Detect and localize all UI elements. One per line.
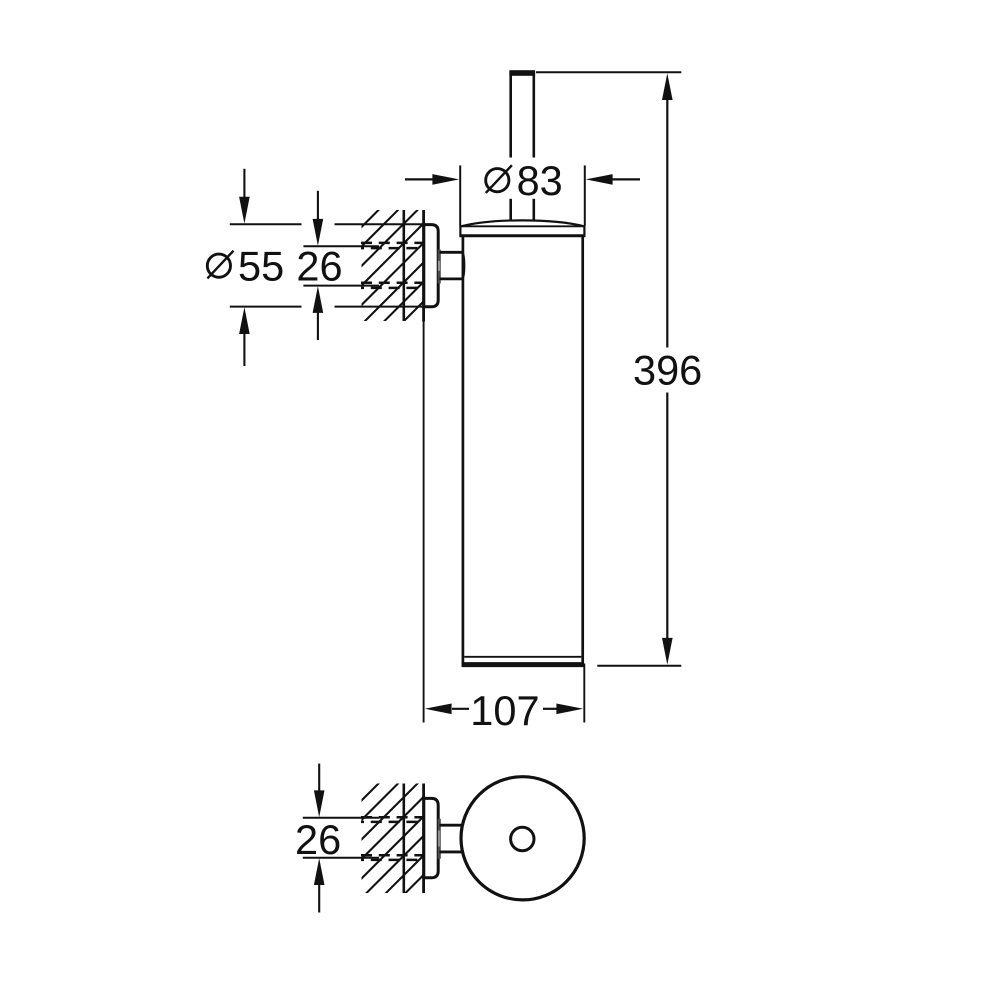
svg-text:83: 83 bbox=[517, 157, 563, 204]
svg-text:55: 55 bbox=[238, 242, 284, 289]
svg-text:107: 107 bbox=[470, 687, 539, 734]
svg-text:396: 396 bbox=[633, 347, 702, 394]
svg-text:26: 26 bbox=[295, 816, 341, 863]
svg-text:26: 26 bbox=[296, 242, 342, 289]
